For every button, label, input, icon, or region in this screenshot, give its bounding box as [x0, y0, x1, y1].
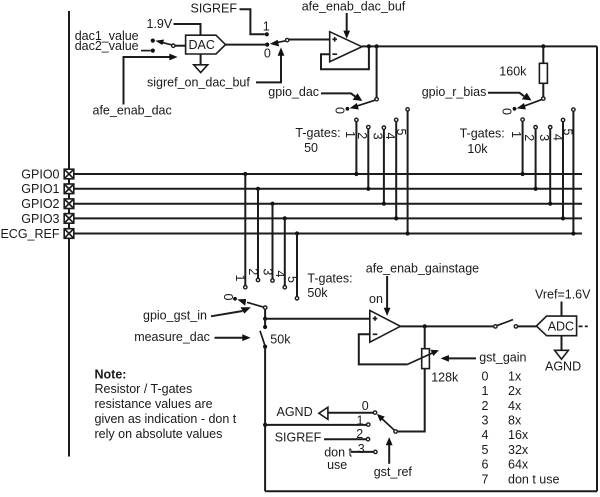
svg-text:1: 1 — [263, 20, 270, 34]
wire measure_dac pointer — [215, 337, 244, 339]
T-gate 10k line 2 — [522, 126, 538, 191]
svg-text:2: 2 — [482, 399, 489, 413]
svg-text:8x: 8x — [508, 414, 522, 428]
wire GPIO2 — [74, 203, 582, 205]
T-gate 50 line 4 — [383, 118, 399, 220]
pad GPIO2 — [64, 199, 74, 209]
op-amp U2 plus input mark — [332, 37, 337, 42]
wire output junction to 128k — [424, 326, 426, 348]
svg-text:3: 3 — [371, 133, 385, 140]
arrowhead gpio_r_bias pointer — [522, 93, 532, 101]
switch gpio_r_bias contact 0 — [513, 107, 517, 111]
wire junction to contact 1 — [265, 424, 367, 426]
switch dac input select arrowhead — [155, 40, 164, 46]
wire GPIO0 — [74, 173, 582, 175]
svg-text:1: 1 — [482, 384, 489, 398]
junction sigref switch contact 1 — [265, 32, 269, 36]
wire U3 output — [400, 325, 493, 327]
wire 1.9V to DAC — [174, 24, 201, 35]
op-amp U2 minus input mark — [332, 53, 337, 55]
switch sigref_on_dac_buf arm — [277, 41, 286, 43]
svg-text:1: 1 — [509, 131, 523, 138]
wire U2 output to right border — [362, 45, 597, 47]
svg-text:AGND: AGND — [277, 405, 313, 419]
wire to resistor 160k — [542, 46, 544, 63]
svg-text:sigref_on_dac_buf: sigref_on_dac_buf — [147, 76, 250, 90]
svg-text:0: 0 — [499, 108, 513, 115]
op-amp U3 gain stage — [370, 310, 401, 342]
svg-text:5: 5 — [482, 443, 489, 457]
arrowhead gpio_gst_in pointer — [241, 307, 251, 313]
svg-text:0: 0 — [482, 369, 489, 383]
svg-text:1x: 1x — [508, 369, 522, 383]
wire U2 feedback — [321, 47, 369, 70]
junction 160k tap — [541, 44, 545, 48]
T-gate 50k line 2 — [246, 187, 260, 282]
T-gate 50k line 3 — [260, 202, 274, 283]
T-gate 50 line 3 — [371, 126, 387, 206]
wire dac2_value stub — [141, 50, 151, 52]
pad GPIO3 — [64, 214, 74, 224]
wire SIGREF to contact 2 — [324, 438, 366, 440]
op-amp U3 plus input mark — [373, 316, 378, 321]
svg-text:50k: 50k — [307, 286, 328, 300]
svg-text:2x: 2x — [508, 384, 522, 398]
svg-text:T-gates:: T-gates: — [307, 271, 352, 285]
svg-text:1: 1 — [233, 275, 247, 282]
svg-text:gpio_dac: gpio_dac — [268, 85, 319, 99]
wire afe_enab_dac arrow — [124, 57, 171, 105]
arrowhead gst_gain pointer — [441, 355, 449, 362]
pad GPIO0 — [64, 169, 74, 179]
junction sigref switch contact 0 — [265, 43, 269, 47]
svg-text:50k: 50k — [270, 333, 291, 347]
arrowhead measure_dac pointer — [242, 334, 250, 341]
wire measure_dac down to bottom — [264, 347, 266, 492]
arrowhead gst_ref pointer — [386, 437, 393, 445]
svg-text:0: 0 — [264, 46, 271, 60]
arrowhead gpio_dac pointer — [353, 93, 363, 101]
wire afe_enab_dac_buf arrow — [346, 13, 348, 31]
junction gst_ref contact1 tap — [263, 423, 267, 427]
wire adc switch to ADC — [518, 325, 537, 327]
junction measure_dac upper contact — [263, 325, 267, 329]
svg-text:GPIO3: GPIO3 — [21, 212, 59, 226]
wire U3 feedback — [359, 334, 408, 364]
svg-text:gst_ref: gst_ref — [374, 465, 413, 479]
svg-text:6: 6 — [482, 458, 489, 472]
svg-text:2: 2 — [355, 132, 369, 139]
wire ADC output dashes — [579, 325, 588, 327]
switch gpio_r_bias pivot — [542, 97, 545, 100]
switch gst_ref pivot — [394, 430, 397, 433]
svg-text:ECG_REF: ECG_REF — [0, 227, 59, 241]
svg-text:5: 5 — [561, 129, 575, 136]
wire 128k to gst_ref switch — [397, 369, 424, 432]
svg-text:SIGREF: SIGREF — [191, 2, 238, 16]
svg-text:2: 2 — [246, 268, 260, 275]
wire gst_gain pointer — [449, 357, 477, 359]
svg-text:160k: 160k — [499, 64, 527, 78]
svg-text:Note:: Note: — [95, 367, 127, 381]
svg-text:3: 3 — [537, 134, 551, 141]
switch adc contact left — [494, 325, 497, 328]
resistor R1 160k — [539, 63, 547, 83]
svg-text:GPIO1: GPIO1 — [21, 182, 59, 196]
svg-text:128k: 128k — [431, 370, 459, 384]
svg-text:DAC: DAC — [189, 38, 215, 52]
svg-text:2: 2 — [522, 134, 536, 141]
junction dac1_value contact — [151, 39, 155, 43]
wire gpio_dac pointer — [321, 93, 355, 96]
wire gpio_dac riser — [376, 46, 378, 97]
arrowhead sigref_on_dac_buf — [278, 47, 285, 55]
junction U2 output feedback tap — [367, 44, 371, 48]
svg-text:don t use: don t use — [508, 472, 559, 486]
svg-text:gpio_gst_in: gpio_gst_in — [143, 308, 207, 322]
wire sigref switch to buffer — [289, 39, 330, 41]
svg-text:3: 3 — [358, 442, 365, 456]
wire junction stub down — [264, 319, 266, 327]
svg-text:resistance values are: resistance values are — [95, 397, 213, 411]
svg-text:GPIO2: GPIO2 — [21, 197, 59, 211]
arrowhead variable resistor — [431, 350, 439, 356]
switch dac input select pivot — [172, 44, 175, 47]
svg-text:32x: 32x — [508, 443, 529, 457]
switch gst_ref contact 3 — [374, 450, 377, 453]
T-gate 10k line 4 — [550, 118, 565, 220]
svg-text:ADC: ADC — [548, 320, 574, 334]
switch gst_ref contact 0 — [373, 411, 376, 414]
svg-text:T-gates:: T-gates: — [460, 126, 505, 140]
arrowhead switch sigref arm — [270, 40, 279, 47]
arrowhead gpio_gst_in arm — [237, 299, 246, 306]
svg-text:4: 4 — [482, 428, 489, 442]
wire afe_enab_gainstage arrow — [386, 276, 388, 308]
T-gate 50 line 2 — [355, 125, 371, 190]
svg-text:Vref=1.6V: Vref=1.6V — [535, 287, 591, 301]
wire gpio_gst_in pointer — [211, 311, 243, 316]
arrowhead afe_enab_gainstage — [384, 308, 391, 316]
wire ECG_REF — [74, 233, 582, 235]
svg-text:gst_gain: gst_gain — [479, 350, 526, 364]
switch measure_dac arm — [260, 331, 265, 346]
op-amp U3 minus input mark — [373, 333, 378, 335]
switch gpio_gst_in contact 0 — [233, 297, 237, 301]
svg-text:on: on — [369, 292, 383, 306]
svg-text:rely on absolute values: rely on absolute values — [95, 427, 223, 441]
svg-text:3: 3 — [482, 414, 489, 428]
svg-text:measure_dac: measure_dac — [134, 330, 210, 344]
switch adc arm — [497, 320, 513, 326]
svg-text:16x: 16x — [508, 428, 529, 442]
wire DAC output to contact 0 — [226, 44, 267, 46]
svg-text:T-gates:: T-gates: — [295, 126, 340, 140]
svg-text:Resistor / T-gates: Resistor / T-gates — [95, 382, 193, 396]
svg-text:SIGREF: SIGREF — [275, 431, 322, 445]
switch adc contact right — [514, 325, 517, 328]
svg-text:gpio_r_bias: gpio_r_bias — [422, 85, 487, 99]
wire dac switch to DAC — [175, 45, 186, 47]
arrowhead afe_enab_dac_buf — [343, 31, 350, 39]
svg-text:4x: 4x — [508, 399, 522, 413]
switch sigref pivot — [286, 38, 289, 41]
arrowhead gpio_r_bias arm — [517, 103, 526, 110]
svg-text:1.9V: 1.9V — [147, 17, 173, 31]
ADC U4 — [536, 316, 576, 336]
wire gpio_r_bias pointer — [488, 93, 524, 96]
switch gst_ref contact 1 — [367, 423, 370, 426]
op-amp U2 buffer — [330, 32, 362, 62]
svg-text:use: use — [327, 458, 347, 472]
svg-text:AGND: AGND — [545, 359, 581, 373]
svg-text:afe_enab_dac: afe_enab_dac — [93, 104, 172, 118]
pad GPIO1 — [64, 184, 74, 194]
svg-text:dac2_value: dac2_value — [75, 39, 139, 53]
svg-text:5: 5 — [394, 129, 408, 136]
switch gpio_r_bias arm — [524, 100, 542, 107]
svg-text:0: 0 — [221, 294, 235, 301]
resistor R2 128k variable — [422, 349, 430, 369]
svg-text:5: 5 — [285, 276, 299, 283]
ground arrow below DAC — [200, 54, 202, 65]
variable resistor diagonal arrow — [408, 353, 434, 365]
svg-text:10k: 10k — [467, 142, 488, 156]
wire junction to gain op-amp — [265, 318, 370, 320]
switch gst_ref contact 2 — [366, 438, 369, 441]
junction U2 output gpio_dac tap — [375, 44, 379, 48]
switch gpio_gst_in pivot — [264, 306, 267, 309]
junction dac2_value contact — [151, 49, 155, 53]
wire left vertical bus — [68, 11, 70, 457]
T-gate 50 line 1 — [343, 118, 359, 176]
wire right border — [596, 46, 598, 491]
T-gate 10k line 1 — [509, 118, 525, 176]
wire don t use to contact 3 — [351, 451, 374, 453]
svg-text:64x: 64x — [508, 458, 529, 472]
wire GPIO3 — [74, 217, 582, 219]
T-gate 50k line 4 — [273, 216, 287, 289]
switch gst_ref arm — [382, 419, 394, 431]
arrow AGND left-pointing — [319, 407, 328, 419]
switch dac input select arm — [162, 42, 173, 45]
wire sigref_on_dac_buf arrow — [256, 55, 281, 82]
T-gate 50k line 5 — [285, 231, 299, 300]
svg-text:7: 7 — [482, 472, 489, 486]
svg-text:0: 0 — [362, 399, 369, 413]
junction measure_dac lower pivot — [263, 345, 267, 349]
switch gpio_dac pivot — [375, 98, 378, 101]
T-gate 10k line 3 — [537, 126, 552, 206]
wire gst_ref pointer — [388, 445, 390, 464]
svg-text:0: 0 — [332, 107, 346, 114]
T-gate 50 line 5 — [394, 108, 410, 236]
wire gst_in pivot to junction — [264, 309, 266, 318]
svg-text:3: 3 — [260, 268, 274, 275]
ground AGND symbol — [555, 350, 569, 359]
wire bottom border — [265, 490, 597, 492]
svg-text:afe_enab_dac_buf: afe_enab_dac_buf — [302, 0, 406, 13]
wire SIGREF to switch contact 1 — [240, 9, 265, 34]
wire ADC to AGND symbol — [561, 336, 563, 350]
DAC U1 — [186, 35, 226, 54]
svg-text:given as indication - don t: given as indication - don t — [95, 412, 237, 426]
T-gate 10k line 5 — [561, 108, 576, 236]
switch gpio_dac arm — [357, 100, 376, 106]
wire Vref to ADC — [561, 302, 563, 317]
wire AGND to contact 0 — [328, 412, 373, 414]
svg-text:50: 50 — [304, 141, 318, 155]
arrowhead gpio_dac arm — [350, 103, 359, 110]
wire GPIO1 — [74, 188, 582, 190]
switch gpio_gst_in arm — [247, 302, 264, 307]
junction U3 output resistor tap — [423, 324, 427, 328]
arrowhead gst_ref arm — [377, 414, 385, 422]
junction gain input node — [263, 317, 267, 321]
T-gate 50k line 1 — [233, 172, 247, 289]
arrowhead afe_enab_dac — [169, 54, 177, 61]
wire resistor 160k to switch — [542, 83, 544, 97]
svg-text:GPIO0: GPIO0 — [21, 167, 59, 181]
pad ECG_REF — [64, 229, 74, 239]
svg-text:afe_enab_gainstage: afe_enab_gainstage — [366, 261, 479, 275]
switch gpio_dac contact 0 — [346, 107, 350, 111]
